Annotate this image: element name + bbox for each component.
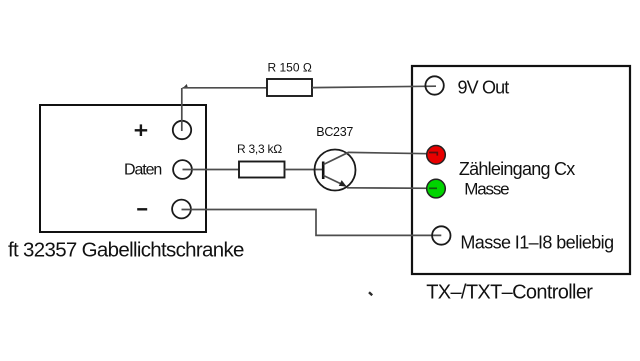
stray tick mark left of controller caption xyxy=(369,292,372,295)
transistor Q1 collector lead xyxy=(324,152,349,164)
terminal Daten (photogate) xyxy=(173,160,192,179)
resistor R1 150 ohm body xyxy=(267,79,312,96)
svg-text:TX–/TXT–Controller: TX–/TXT–Controller xyxy=(426,281,593,303)
arrowhead at wire corner above + terminal xyxy=(182,84,188,89)
svg-text:R 150 Ω: R 150 Ω xyxy=(268,60,312,74)
svg-text:Daten: Daten xyxy=(124,161,161,178)
transistor Q1 emitter lead with arrow xyxy=(324,176,347,187)
minus symbol of photogate xyxy=(137,208,147,210)
wire: horizontal to R1 left xyxy=(183,87,268,89)
wire: - terminal to Masse I1-I8 terminal (three segments) xyxy=(182,210,442,236)
wire tip inside Zaehleingang terminal xyxy=(429,153,437,156)
svg-text:Zähleingang Cx: Zähleingang Cx xyxy=(459,159,575,179)
svg-text:ft 32357 Gabellichtschranke: ft 32357 Gabellichtschranke xyxy=(8,238,244,261)
terminal Masse I1-I8 (controller) xyxy=(432,226,450,244)
wire: R1 right to 9V Out terminal xyxy=(312,86,436,87)
wire: Daten terminal to R2 left xyxy=(183,169,240,171)
wire: emitter to Masse terminal xyxy=(347,187,436,190)
svg-text:Masse I1–I8 beliebig: Masse I1–I8 beliebig xyxy=(460,233,613,253)
terminal + (photogate) xyxy=(173,121,191,139)
transistor Q1 base bar xyxy=(322,162,325,180)
wire: vertical from + terminal up to R1 wire xyxy=(181,88,183,131)
terminal - (photogate) xyxy=(172,200,191,219)
controller box: TX-/TXT-Controller xyxy=(412,66,630,274)
wire tip inside Masse terminal xyxy=(429,187,437,189)
svg-text:Masse: Masse xyxy=(464,180,509,199)
svg-text:9V Out: 9V Out xyxy=(458,78,510,98)
wire: R2 right to transistor base xyxy=(285,169,323,171)
resistor R2 3,3 kOhm body xyxy=(239,162,285,178)
transistor Q1 BC237 body circle xyxy=(315,150,356,191)
terminal Zaehleingang Cx (red) xyxy=(427,146,446,165)
plus symbol of photogate xyxy=(135,124,148,136)
wire: collector to Zaehleingang Cx terminal xyxy=(348,152,436,153)
svg-text:BC237: BC237 xyxy=(316,125,353,139)
terminal 9V Out (controller) xyxy=(425,76,443,94)
component box: ft 32357 Gabellichtschranke xyxy=(40,105,206,232)
terminal Masse (green) xyxy=(427,179,446,198)
svg-text:R 3,3 kΩ: R 3,3 kΩ xyxy=(237,142,282,156)
